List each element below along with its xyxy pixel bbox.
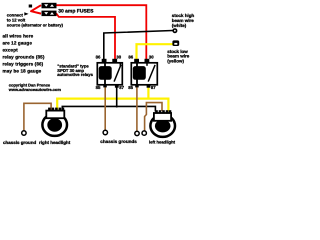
svg-text:right headlight: right headlight bbox=[39, 140, 71, 145]
svg-text:30: 30 bbox=[149, 54, 154, 59]
svg-text:left headlight: left headlight bbox=[149, 140, 176, 145]
svg-text:are 12 gauge: are 12 gauge bbox=[3, 40, 33, 45]
svg-text:86: 86 bbox=[96, 54, 101, 59]
svg-text:30: 30 bbox=[116, 54, 121, 59]
svg-text:85: 85 bbox=[96, 85, 101, 90]
svg-text:may be 18 gauge: may be 18 gauge bbox=[3, 68, 42, 73]
svg-text:chassis grounds: chassis grounds bbox=[100, 139, 137, 144]
svg-text:(white): (white) bbox=[172, 23, 187, 28]
svg-text:relay triggers (86): relay triggers (86) bbox=[3, 61, 44, 66]
svg-text:87: 87 bbox=[119, 85, 124, 90]
svg-text:chassis ground: chassis ground bbox=[3, 140, 37, 145]
svg-text:source (alternator or battery): source (alternator or battery) bbox=[7, 22, 64, 27]
svg-text:all wires here: all wires here bbox=[3, 33, 34, 38]
svg-text:85: 85 bbox=[128, 85, 133, 90]
svg-text:except: except bbox=[3, 47, 19, 52]
svg-text:automotive relays: automotive relays bbox=[57, 72, 93, 77]
svg-text:(yellow): (yellow) bbox=[167, 58, 184, 63]
svg-text:30 amp FUSES: 30 amp FUSES bbox=[58, 8, 94, 14]
svg-text:86: 86 bbox=[128, 54, 133, 59]
svg-text:www.advanceautowire.com: www.advanceautowire.com bbox=[8, 87, 62, 92]
svg-text:relay grounds (85): relay grounds (85) bbox=[3, 54, 45, 59]
svg-text:87: 87 bbox=[151, 85, 156, 90]
